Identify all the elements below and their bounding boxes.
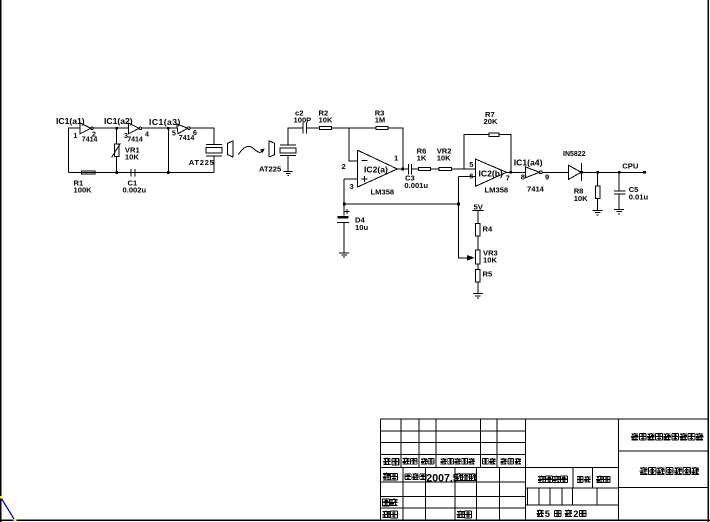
svg-text:IN5822: IN5822 — [563, 151, 586, 158]
label 超声波电路原理 — [640, 467, 700, 475]
label 共5 张 第 2张 — [537, 508, 586, 519]
label 比例 — [596, 476, 610, 483]
svg-text:2007.5: 2007.5 — [426, 473, 459, 485]
wire: pin3 entry — [344, 179, 357, 204]
yellow corner handle top — [0, 496, 2, 499]
ground below C5 — [614, 209, 624, 213]
wire: a4 output to diode — [542, 171, 568, 173]
inverter IC1(a3) — [149, 117, 197, 142]
ground below R8 — [593, 211, 603, 215]
capacitor C3 — [404, 164, 428, 190]
wire: R2 to R3 with tap down to pin2 — [331, 128, 376, 161]
transducer AT225 right — [259, 145, 296, 173]
resistor R3 — [375, 108, 389, 129]
wire: inv3 vertical to bottom rail — [167, 128, 169, 173]
resistor R5 — [476, 269, 493, 282]
arrow into VR3 — [468, 256, 474, 260]
wire: pin6 entry from below — [459, 177, 476, 204]
row 工艺 批准 — [382, 510, 471, 518]
svg-text:LM358: LM358 — [485, 185, 509, 194]
svg-text:9: 9 — [545, 173, 549, 182]
transducer AT225 left — [189, 145, 222, 167]
svg-text:10u: 10u — [355, 223, 368, 232]
resistor R7 — [484, 110, 500, 136]
svg-text:IC1(a2): IC1(a2) — [104, 116, 133, 126]
wire: R4 to VR3 — [477, 236, 479, 250]
svg-text:IC1(a1): IC1(a1) — [56, 116, 85, 126]
label 阶段标记 — [538, 475, 567, 482]
svg-text:10K: 10K — [437, 154, 451, 163]
svg-text:0.01u: 0.01u — [629, 192, 649, 201]
svg-text:4: 4 — [145, 132, 149, 139]
svg-text:R5: R5 — [483, 269, 493, 278]
row 设计 name 2007.5 标准化 — [383, 473, 477, 485]
svg-text:5: 5 — [545, 508, 550, 519]
node: R8 top junction — [596, 171, 599, 174]
svg-text:0.002u: 0.002u — [123, 186, 147, 195]
resistor R6 — [417, 147, 431, 171]
svg-text:2: 2 — [342, 162, 346, 171]
svg-text:5: 5 — [172, 130, 176, 137]
node: VR1 top junction — [115, 127, 118, 130]
wire: oscillator left vertical — [68, 128, 70, 173]
svg-text:CPU: CPU — [622, 162, 639, 171]
wire: R5 to ground — [477, 282, 479, 294]
capacitor c2 — [294, 108, 312, 133]
node: VR1 bottom junction — [115, 171, 118, 174]
svg-text:7414: 7414 — [82, 137, 98, 144]
wire: VR2 to IC2(b) pin5 — [452, 168, 476, 170]
svg-text:100K: 100K — [74, 186, 93, 195]
ground below AT225 right — [284, 172, 293, 176]
page border left — [0, 0, 1, 522]
label 重量 — [577, 476, 590, 482]
wire: R6 to VR2 — [430, 168, 438, 170]
svg-text:1K: 1K — [417, 154, 427, 163]
svg-text:8: 8 — [521, 173, 525, 182]
wire: c2 to R2 — [306, 127, 319, 129]
svg-text:20K: 20K — [484, 117, 498, 126]
svg-text:AT225: AT225 — [189, 158, 215, 167]
svg-text:7414: 7414 — [179, 135, 195, 142]
resistor R8 — [574, 172, 600, 210]
capacitor C1 — [123, 169, 147, 195]
svg-text:1: 1 — [74, 133, 78, 140]
svg-text:7414: 7414 — [527, 185, 545, 194]
wire: VR3 to R5 — [477, 264, 479, 270]
svg-text:LM358: LM358 — [371, 188, 395, 197]
inverter IC1(a2) — [104, 116, 149, 144]
resistor R1 — [74, 171, 95, 195]
svg-text:0.001u: 0.001u — [404, 181, 428, 190]
potentiometer VR3 — [476, 249, 498, 265]
svg-text:10K: 10K — [483, 256, 497, 265]
svg-text:3: 3 — [350, 182, 354, 191]
wire: oscillator bottom rail — [69, 172, 214, 174]
op-amp IC2(a) — [342, 150, 400, 196]
svg-text:10K: 10K — [319, 116, 333, 125]
svg-text:2: 2 — [573, 508, 578, 519]
wire: IC2(b) output to inverter a4 — [507, 171, 526, 173]
node: inverter3 input junction — [167, 127, 170, 130]
svg-text:10K: 10K — [574, 194, 588, 203]
resistor R4 — [476, 223, 493, 236]
wire: R7 feedback loop — [464, 135, 511, 173]
ground below C4 — [339, 253, 349, 257]
svg-text:AT225: AT225 — [259, 164, 282, 173]
svg-text:100P: 100P — [294, 116, 312, 125]
inverter IC1(a1) — [56, 116, 97, 144]
svg-text:R4: R4 — [483, 224, 493, 233]
inverter IC1(a4) — [514, 157, 549, 193]
node: C4 junction — [343, 203, 346, 206]
svg-text:7: 7 — [506, 174, 510, 183]
svg-text:10K: 10K — [125, 152, 139, 161]
label 四川理工学院机电系 — [631, 433, 703, 440]
potentiometer VR2 — [437, 147, 452, 171]
wire: oscillator top rail segments — [68, 127, 177, 129]
horn symbol left — [227, 141, 233, 157]
svg-text:IC1(a4): IC1(a4) — [514, 157, 543, 167]
node: diode cathode junction — [580, 171, 583, 174]
node: feedback/output junction — [510, 171, 513, 174]
horn symbol right — [269, 141, 275, 157]
title block grid — [381, 419, 708, 520]
page border right — [708, 0, 709, 522]
wire: inv3 output to AT225 left — [190, 128, 214, 172]
node: C1/inv3 bottom junction — [167, 171, 170, 174]
svg-text:7414: 7414 — [127, 137, 143, 144]
5V supply — [472, 202, 483, 223]
capacitor C5 — [614, 172, 649, 209]
node: pin6/VR3 junction — [457, 203, 460, 206]
node: C5 top junction — [618, 171, 621, 174]
wire: IC2(a) output — [397, 168, 408, 170]
blue corner line — [1, 497, 16, 521]
yellow corner handle bottom — [14, 519, 17, 521]
wire: diode to CPU endpoint — [582, 171, 645, 173]
wire: R3 feedback down to output — [388, 128, 403, 169]
wire: AT225 right top to c2 — [288, 128, 303, 172]
node: CPU endpoint dot — [643, 171, 646, 174]
wire: plus-input rail y204 — [344, 203, 458, 205]
op-amp IC2(b) — [469, 159, 510, 194]
diode IN5822 — [563, 151, 586, 181]
potentiometer VR1 — [112, 129, 141, 173]
wire: VR3 wiper arm — [459, 204, 469, 258]
svg-text:1M: 1M — [375, 116, 386, 125]
row 审核 — [383, 498, 398, 506]
capacitor C4 electrolytic — [337, 204, 369, 253]
sound wave arrow — [238, 146, 264, 154]
wire: C3 to R6 — [411, 168, 418, 170]
svg-text:IC2(a): IC2(a) — [364, 164, 388, 174]
node: output/feedback junction — [402, 168, 405, 171]
svg-text:IC1(a3): IC1(a3) — [149, 117, 181, 127]
svg-text:IC2(b): IC2(b) — [479, 169, 503, 179]
ground below R5 — [473, 294, 483, 298]
header row 标记 — [383, 458, 521, 465]
page border bottom — [0, 520, 710, 522]
svg-text:6: 6 — [469, 171, 473, 180]
resistor R2 — [319, 108, 333, 129]
svg-text:5V: 5V — [474, 202, 484, 211]
